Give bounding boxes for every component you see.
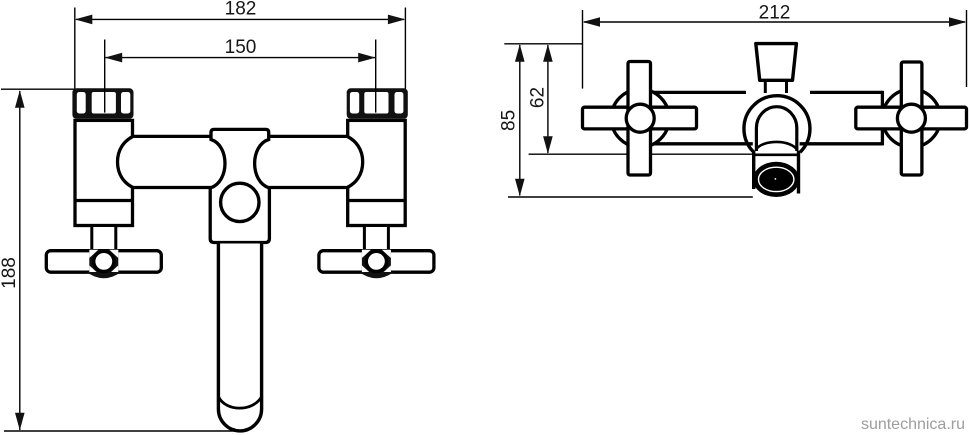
extension line 85 bottom bbox=[508, 196, 753, 198]
diverter knob bbox=[756, 44, 797, 81]
left valve separation line bbox=[75, 199, 133, 202]
diverter circle bbox=[221, 183, 259, 221]
center block bbox=[210, 129, 269, 242]
extension line 182 left bbox=[74, 8, 76, 93]
spout shoulder arc bbox=[756, 142, 798, 151]
right handle bar bbox=[319, 251, 434, 273]
left handle vertical bar bbox=[628, 62, 651, 176]
right valve body bbox=[348, 120, 406, 225]
left nut bbox=[72, 88, 133, 119]
left hub bbox=[626, 104, 654, 132]
spout inner arc bbox=[756, 107, 796, 151]
right rosette bbox=[882, 89, 940, 147]
right pipe bbox=[265, 136, 363, 187]
extension line top (knob level) bbox=[504, 43, 582, 45]
spout outer arc bbox=[744, 96, 810, 153]
left crossbar bbox=[583, 107, 697, 129]
arrowhead 182 right bbox=[388, 15, 406, 25]
dimension line 188 bbox=[19, 91, 21, 430]
body bar right cap bbox=[881, 91, 884, 146]
arrowhead 150 right bbox=[358, 53, 376, 63]
svg-text:85: 85 bbox=[499, 110, 520, 131]
arrowhead 212 right bbox=[949, 17, 967, 27]
arrowhead 188 down bbox=[15, 413, 25, 431]
svg-text:suntechnica.ru: suntechnica.ru bbox=[861, 416, 965, 433]
left stem bbox=[92, 226, 116, 251]
extension line 188 top bbox=[1, 88, 74, 90]
right nut bbox=[347, 88, 408, 119]
arrowhead 212 left bbox=[583, 17, 601, 27]
spout seam arc bbox=[218, 397, 261, 409]
extension line 182 right bbox=[404, 8, 406, 93]
extension line 150 right bbox=[375, 40, 377, 113]
arrowhead 150 left bbox=[105, 53, 123, 63]
left pipe bbox=[118, 136, 216, 187]
spout tube bbox=[218, 244, 261, 431]
dimension line 182 bbox=[76, 18, 404, 20]
body bar left cap bbox=[650, 91, 653, 146]
arrowhead 182 left bbox=[75, 15, 93, 25]
left handle bar bbox=[46, 251, 161, 273]
svg-text:62: 62 bbox=[528, 87, 549, 108]
right hub bbox=[897, 104, 925, 132]
svg-text:182: 182 bbox=[225, 0, 257, 20]
arrowhead 62 down bbox=[543, 136, 553, 154]
diverter neck bbox=[764, 80, 788, 93]
right handle hub bbox=[359, 250, 394, 278]
extension line 150 left bbox=[104, 40, 106, 113]
svg-text:212: 212 bbox=[759, 3, 791, 24]
spout tube right edge bbox=[797, 151, 800, 194]
dimension line 85 bbox=[519, 45, 521, 196]
arrowhead 188 up bbox=[15, 90, 25, 108]
extension line 212 right bbox=[966, 10, 968, 87]
left valve body bbox=[75, 120, 133, 225]
dimension line 150 bbox=[106, 57, 376, 59]
body bar bottom edge segments bbox=[652, 142, 753, 145]
right valve separation line bbox=[348, 199, 406, 202]
spout seam bbox=[752, 154, 800, 157]
body bar top edge segments bbox=[652, 91, 746, 94]
svg-text:188: 188 bbox=[0, 257, 20, 289]
dimension line 62 bbox=[547, 45, 549, 153]
spout tube left edge bbox=[752, 151, 755, 189]
arrowhead 85 down bbox=[515, 179, 525, 197]
extension line 62 bottom bbox=[529, 153, 753, 155]
right crossbar bbox=[856, 107, 967, 129]
arrowhead 62 up bbox=[543, 44, 553, 62]
arrowhead 85 up bbox=[515, 44, 525, 62]
right stem bbox=[364, 226, 388, 251]
svg-text:150: 150 bbox=[225, 37, 257, 58]
left handle hub bbox=[87, 250, 122, 278]
left rosette bbox=[611, 89, 669, 147]
extension line 212 left bbox=[582, 10, 584, 89]
baseline under spout bbox=[4, 430, 242, 432]
dimension line 212 bbox=[584, 21, 965, 23]
right handle vertical bar bbox=[901, 62, 922, 175]
body bar fill bbox=[652, 92, 882, 143]
spout opening bbox=[753, 162, 799, 197]
